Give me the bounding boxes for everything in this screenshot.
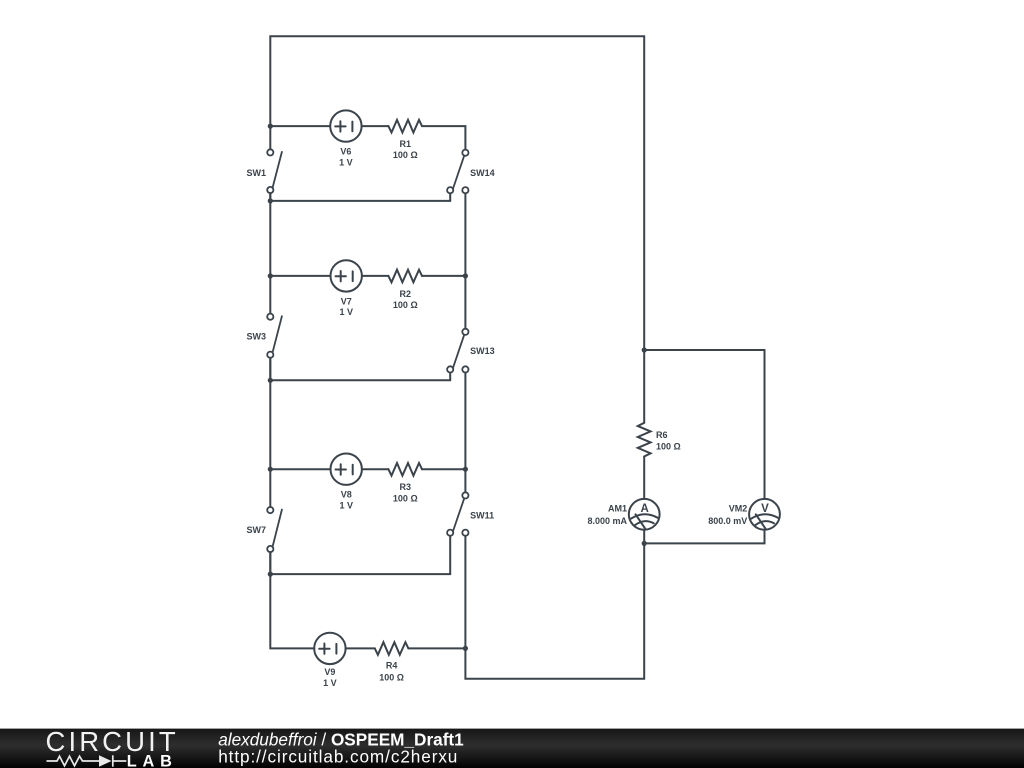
wire left rail seg1 bbox=[269, 126, 271, 149]
logo CIRCUIT bbox=[46, 726, 179, 757]
wire row1 return bbox=[270, 200, 450, 202]
label R6 bbox=[656, 430, 681, 452]
svg-text:R3: R3 bbox=[400, 482, 412, 492]
label SW3 bbox=[246, 332, 266, 342]
footer title bbox=[218, 729, 464, 749]
resistor R4 bbox=[375, 642, 409, 655]
wire row3 source-resistor bbox=[362, 468, 389, 470]
node SW3 junction bbox=[268, 378, 273, 383]
label SW13 bbox=[470, 346, 495, 356]
node row1 left bbox=[268, 124, 273, 129]
wire right column seg2 bbox=[464, 373, 466, 493]
switch SW7 bbox=[267, 507, 282, 552]
svg-text:R4: R4 bbox=[386, 660, 398, 670]
resistor R3 bbox=[388, 463, 422, 476]
voltage source V9 bbox=[314, 633, 345, 664]
voltmeter VM2 bbox=[749, 499, 780, 530]
ammeter AM1 bbox=[629, 499, 660, 530]
node rail bottom bbox=[642, 541, 647, 546]
wire VM2 branch top bbox=[644, 350, 764, 499]
svg-text:100 Ω: 100 Ω bbox=[393, 150, 418, 160]
svg-text:SW7: SW7 bbox=[246, 525, 266, 535]
wire AM1 bottom lead bbox=[643, 530, 645, 544]
resistor R6 bbox=[638, 423, 651, 457]
svg-text:LAB: LAB bbox=[127, 753, 178, 768]
switch SW1 stubs bbox=[270, 193, 450, 574]
label R3 bbox=[393, 482, 418, 503]
svg-text:1 V: 1 V bbox=[323, 678, 337, 688]
resistor R2 bbox=[388, 270, 422, 283]
wire row3 right lead bbox=[422, 468, 465, 470]
switch SW13 bbox=[447, 329, 468, 373]
label AM1 letter bbox=[640, 503, 648, 515]
svg-text:V: V bbox=[761, 503, 769, 515]
wire row4 right lead bbox=[408, 647, 465, 649]
footer url bbox=[218, 747, 458, 767]
svg-text:V7: V7 bbox=[341, 296, 352, 306]
svg-text:1 V: 1 V bbox=[339, 307, 353, 317]
svg-text:SW11: SW11 bbox=[470, 511, 494, 521]
node SW1 junction bbox=[268, 198, 273, 203]
svg-text:100 Ω: 100 Ω bbox=[393, 300, 418, 310]
node row2 right bbox=[463, 273, 468, 278]
svg-text:V8: V8 bbox=[341, 490, 352, 500]
wire row4 source-resistor bbox=[346, 647, 375, 649]
svg-text:100 Ω: 100 Ω bbox=[656, 442, 681, 452]
svg-text:100 Ω: 100 Ω bbox=[393, 493, 418, 503]
label SW7 bbox=[246, 525, 266, 535]
wire row1 left lead bbox=[270, 125, 330, 127]
label SW11 bbox=[470, 511, 494, 521]
svg-text:1 V: 1 V bbox=[339, 501, 353, 511]
node row3 right bbox=[463, 467, 468, 472]
label SW14 bbox=[470, 168, 495, 178]
wire row1 right lead bbox=[422, 126, 465, 149]
svg-text:A: A bbox=[640, 503, 648, 515]
svg-text:SW3: SW3 bbox=[246, 332, 266, 342]
wire left rail seg2 bbox=[269, 193, 271, 313]
wire R6-AM1 bbox=[643, 457, 645, 499]
wire left rail seg3 bbox=[269, 358, 271, 507]
wire row3 left lead bbox=[270, 468, 330, 470]
svg-text:AM1: AM1 bbox=[608, 504, 627, 514]
node row2 left bbox=[268, 273, 273, 278]
label VM2 bbox=[708, 504, 747, 526]
switch SW14 bbox=[447, 150, 468, 194]
logo resistor-diode bbox=[47, 755, 127, 766]
label V9 bbox=[323, 667, 337, 688]
wire row2 return bbox=[270, 379, 450, 381]
svg-text:800.0 mV: 800.0 mV bbox=[708, 516, 747, 526]
wire row3 return bbox=[270, 573, 450, 575]
wire left rail seg4 bbox=[270, 552, 314, 648]
svg-text:V9: V9 bbox=[324, 667, 335, 677]
label R1 bbox=[393, 139, 418, 160]
voltage source V7 bbox=[331, 260, 362, 291]
label VM2 letter bbox=[761, 503, 769, 515]
label R2 bbox=[393, 289, 418, 310]
footer bar bbox=[0, 729, 1024, 768]
svg-text:http://circuitlab.com/c2herxu: http://circuitlab.com/c2herxu bbox=[218, 747, 458, 767]
wire right column seg3 bbox=[464, 536, 466, 649]
svg-text:R6: R6 bbox=[656, 430, 668, 440]
wire bottom jog bbox=[465, 543, 644, 678]
label SW1 bbox=[246, 168, 266, 178]
switch SW3 bbox=[267, 314, 282, 358]
logo LAB bbox=[127, 753, 178, 768]
svg-text:SW14: SW14 bbox=[470, 168, 495, 178]
svg-text:VM2: VM2 bbox=[729, 504, 748, 514]
wire VM2 branch bottom bbox=[644, 530, 764, 544]
voltage source V8 bbox=[331, 454, 362, 485]
svg-text:R1: R1 bbox=[400, 139, 412, 149]
svg-text:8.000 mA: 8.000 mA bbox=[587, 516, 627, 526]
wire rail R6 top lead bbox=[643, 350, 645, 423]
resistor R1 bbox=[388, 120, 422, 133]
wire top rail bbox=[270, 36, 644, 350]
node rail top bbox=[642, 347, 647, 352]
svg-text:V6: V6 bbox=[340, 147, 351, 157]
svg-text:R2: R2 bbox=[400, 289, 412, 299]
node row3 left bbox=[268, 467, 273, 472]
svg-text:SW13: SW13 bbox=[470, 346, 495, 356]
switch SW1 bbox=[267, 149, 282, 193]
label V6 bbox=[339, 147, 353, 168]
node SW7 junction bbox=[268, 572, 273, 577]
node row4 right bbox=[463, 646, 468, 651]
label R4 bbox=[379, 660, 404, 682]
label V7 bbox=[339, 296, 353, 317]
wire row1 source-resistor bbox=[362, 125, 389, 127]
svg-text:100 Ω: 100 Ω bbox=[379, 673, 404, 683]
wire row2 source-resistor bbox=[362, 275, 389, 277]
wire row2 right lead bbox=[422, 275, 465, 277]
svg-text:1 V: 1 V bbox=[339, 157, 353, 167]
svg-text:SW1: SW1 bbox=[246, 168, 266, 178]
wire right column seg1 bbox=[464, 193, 466, 328]
label AM1 bbox=[587, 504, 627, 526]
voltage source V6 bbox=[330, 110, 361, 141]
wire row2 left lead bbox=[270, 275, 330, 277]
switch SW11 bbox=[447, 492, 468, 536]
label V8 bbox=[339, 490, 353, 511]
